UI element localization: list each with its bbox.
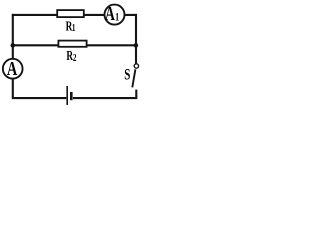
svg-text:2: 2 xyxy=(73,52,77,64)
wire: right vertical upper (corner to switch) xyxy=(135,14,137,65)
switch S: pivot contact circle xyxy=(134,64,138,68)
svg-text:1: 1 xyxy=(115,11,119,24)
wire: middle branch (R2 row) xyxy=(13,44,136,46)
node: junction dot left xyxy=(11,43,16,48)
wire: bottom right segment xyxy=(73,97,137,99)
battery: long plate xyxy=(66,86,68,105)
ammeter A xyxy=(3,59,23,79)
resistor R1 xyxy=(57,10,84,17)
node: junction dot right xyxy=(134,43,139,48)
ammeter A1 xyxy=(105,5,125,25)
label A1 xyxy=(105,3,119,25)
wire: right vertical lower stub (switch to bottom corner) xyxy=(135,90,137,99)
svg-text:1: 1 xyxy=(72,22,76,34)
wire: bottom left segment xyxy=(12,97,66,99)
label R2 xyxy=(66,48,77,63)
svg-text:A: A xyxy=(105,3,116,25)
wire: left vertical xyxy=(12,14,14,98)
label R1 xyxy=(66,19,76,34)
wire: top horizontal xyxy=(12,14,137,16)
battery: short thick plate xyxy=(70,92,73,100)
switch S: lever xyxy=(132,69,135,87)
svg-text:S: S xyxy=(124,65,130,83)
label A xyxy=(7,57,18,80)
label S xyxy=(124,65,130,83)
svg-text:A: A xyxy=(7,57,18,80)
resistor R2 xyxy=(58,41,86,47)
